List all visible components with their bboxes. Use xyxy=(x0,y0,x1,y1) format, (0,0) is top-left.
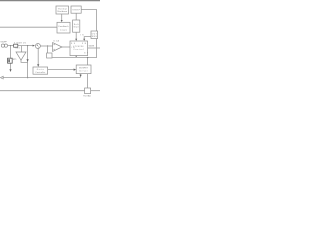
svg-text:Start: Start xyxy=(73,26,79,29)
open arrow left end of bus xyxy=(0,76,3,79)
junction dot bus left branch xyxy=(27,77,28,78)
svg-text:Controller: Controller xyxy=(35,71,45,74)
feedback tap wire down xyxy=(47,46,49,53)
sense box xyxy=(91,31,98,39)
box A monitor logic xyxy=(56,6,69,14)
A1 output wire xyxy=(21,60,28,62)
top frame line xyxy=(0,0,100,2)
feedback network FB1 xyxy=(47,53,52,58)
bottom rail left segment xyxy=(0,90,85,92)
current arrow on vertical wire xyxy=(27,59,29,62)
AC source circle 2 xyxy=(4,44,7,47)
wire U1A output to U2 xyxy=(62,46,70,48)
wire gate controller to driver xyxy=(48,69,74,71)
return bus wire xyxy=(3,77,81,79)
svg-text:FB: FB xyxy=(82,43,87,45)
resistor R1 xyxy=(73,13,80,32)
wire down from junction xyxy=(10,46,12,58)
arrowhead into gate controller xyxy=(37,64,39,67)
box B reference xyxy=(71,6,81,13)
load resistor RL box xyxy=(85,88,91,94)
svg-text:U1A: U1A xyxy=(53,39,59,42)
summing junction S1 xyxy=(35,44,40,49)
svg-text:IS: IS xyxy=(80,34,84,36)
bottom rail right segment xyxy=(91,90,100,92)
svg-text:Feedback: Feedback xyxy=(59,26,70,28)
arrowhead into summing circle xyxy=(33,45,35,47)
gate output wire xyxy=(88,47,100,49)
sense amp input stub xyxy=(21,46,23,52)
junction on wire at x10.5 xyxy=(10,45,11,46)
feedback line across bottom xyxy=(52,57,97,59)
wire box B right to corner xyxy=(81,10,96,31)
arrowhead into feedback logic box xyxy=(61,20,63,22)
wire below R2 xyxy=(10,64,12,70)
wire driver bottom to bus xyxy=(80,74,82,75)
svg-text:RT1: RT1 xyxy=(13,59,17,61)
svg-text:VREF: VREF xyxy=(72,10,80,12)
component R2 on vertical wire xyxy=(8,58,13,63)
svg-text:Shutdown: Shutdown xyxy=(57,10,68,13)
svg-text:Driver: Driver xyxy=(80,70,88,72)
svg-text:MOSFET: MOSFET xyxy=(79,68,89,70)
svg-text:SNS: SNS xyxy=(92,36,98,38)
arrowhead into U2 top pin 2 xyxy=(83,39,85,41)
wire box A down to feedback logic xyxy=(61,14,63,20)
down arrowhead end xyxy=(9,69,11,72)
svg-text:Soft: Soft xyxy=(74,23,79,26)
svg-text:LTC4234: LTC4234 xyxy=(73,46,84,48)
junction dot feedback tap xyxy=(47,45,48,46)
wire S1 down to gate controller xyxy=(37,49,39,65)
svg-text:Thermal: Thermal xyxy=(58,7,68,10)
main IC U2 xyxy=(70,41,89,56)
long wire into feedback logic xyxy=(0,26,57,28)
wire sense box down right side xyxy=(96,39,98,58)
shunt resistor RS xyxy=(14,44,18,47)
wire sense box to U2 top xyxy=(84,37,91,39)
wire driver to load resistor xyxy=(87,74,89,88)
svg-text:SS: SS xyxy=(71,43,76,45)
AC source circle 1 xyxy=(1,44,4,47)
svg-text:VSUPP: VSUPP xyxy=(0,41,7,43)
arrowhead onto bus xyxy=(80,75,82,78)
feedback logic box xyxy=(57,22,70,33)
junction dot at driver branch xyxy=(87,57,88,58)
junction dot at x27.5 xyxy=(27,45,28,46)
svg-text:GT: GT xyxy=(84,52,89,54)
driver box xyxy=(76,65,91,74)
op-amp U1A xyxy=(53,43,62,52)
vertical wire from main line to bus xyxy=(27,46,29,78)
wire down to driver box xyxy=(87,58,89,65)
sense amp A1 triangle xyxy=(16,52,26,60)
junction dot U2 bottom pin xyxy=(76,56,77,57)
main current path wire xyxy=(8,45,35,47)
svg-text:Logic: Logic xyxy=(60,29,67,31)
wire S1 to U1A xyxy=(40,45,52,47)
arrowhead into driver box xyxy=(74,69,77,71)
svg-text:Control: Control xyxy=(73,48,84,51)
arrowhead into U2 top pin xyxy=(75,39,77,41)
summing marks xyxy=(37,45,40,48)
gate controller box xyxy=(33,67,48,74)
svg-text:Gate: Gate xyxy=(37,68,45,71)
op-amp input marks xyxy=(53,45,55,49)
svg-text:RS1: RS1 xyxy=(15,48,20,50)
svg-text:GATE: GATE xyxy=(89,45,95,48)
wire R1 to U2 top xyxy=(75,32,77,39)
svg-text:RLOAD: RLOAD xyxy=(83,95,91,98)
